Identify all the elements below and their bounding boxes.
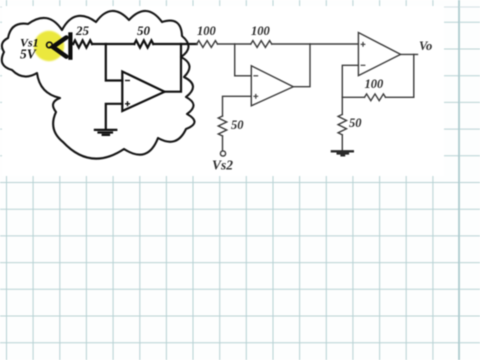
svg-text:50: 50 — [231, 118, 244, 132]
svg-text:25: 25 — [75, 23, 90, 38]
svg-text:50: 50 — [137, 23, 151, 38]
svg-text:Vs2: Vs2 — [212, 158, 233, 173]
svg-text:Vo: Vo — [419, 39, 432, 53]
svg-text:100: 100 — [365, 77, 385, 91]
svg-text:5V: 5V — [20, 47, 37, 62]
svg-text:100: 100 — [197, 24, 217, 38]
svg-text:100: 100 — [251, 24, 271, 38]
svg-text:50: 50 — [349, 116, 362, 130]
